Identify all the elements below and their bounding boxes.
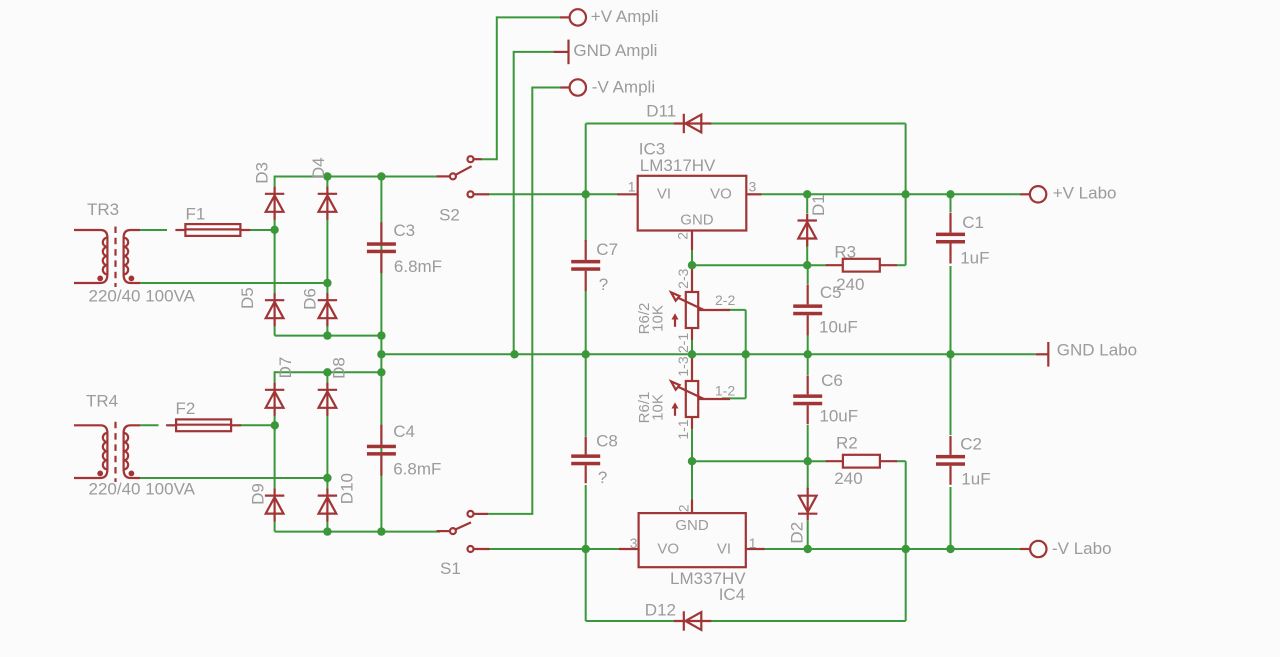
svg-text:10uF: 10uF: [819, 406, 858, 425]
wire C2 column upper: [950, 354, 952, 435]
diode D3: [265, 187, 284, 220]
wire -V Ampli net horizontal: [532, 87, 561, 89]
wire D11 left horizontal: [586, 123, 674, 125]
svg-text:+V Ampli: +V Ampli: [591, 7, 659, 26]
wire R6/2 wiper net: [722, 309, 746, 311]
svg-text:D10: D10: [338, 473, 357, 504]
wire adj rail upper: [692, 264, 827, 266]
svg-text:?: ?: [599, 275, 608, 294]
wire GND rail: [381, 353, 1035, 355]
wire F2 junction to D9: [274, 425, 276, 491]
wire C6 column upper: [807, 354, 809, 375]
wire C6 column lower: [807, 425, 809, 461]
transformer TR3: [74, 227, 140, 288]
svg-text:10uF: 10uF: [819, 317, 858, 336]
svg-text:2: 2: [676, 504, 692, 512]
diode D11: [674, 114, 712, 133]
svg-text:C4: C4: [393, 422, 415, 441]
svg-text:220/40 100VA: 220/40 100VA: [89, 287, 196, 306]
capacitor C8: [571, 436, 600, 483]
diode D2: [798, 488, 817, 521]
potentiometer R6/2: [671, 267, 730, 340]
wire D4 to TR3 junction: [326, 208, 328, 289]
wire top bridge positive rail: [275, 176, 440, 178]
wire D11 left vertical: [585, 124, 587, 196]
wire S2 to IC3 VI rail: [488, 193, 619, 195]
diode D10: [318, 489, 337, 522]
svg-text:VO: VO: [710, 186, 732, 203]
capacitor C6: [793, 375, 822, 424]
wire -V Ampli to S1 throw: [487, 513, 533, 515]
capacitor C7: [571, 240, 600, 291]
junction GND rail GND Ampli: [510, 350, 518, 358]
junction bottom rail C3: [377, 331, 385, 339]
junction rail4 C4: [377, 527, 385, 535]
diode D8: [318, 383, 337, 416]
wire IC4 right rail: [765, 548, 1022, 550]
svg-text:TR4: TR4: [86, 391, 118, 410]
diode D6: [318, 293, 337, 326]
junction GND rail C7C8: [582, 350, 590, 358]
wire D2 column upper: [807, 461, 809, 489]
svg-text:C3: C3: [393, 221, 415, 240]
ground symbol GND Ampli: [554, 40, 569, 65]
diode D9: [265, 489, 284, 522]
svg-text:C7: C7: [596, 240, 618, 259]
svg-text:C5: C5: [820, 283, 842, 302]
resistor R3: [826, 259, 897, 272]
svg-text:+V Labo: +V Labo: [1053, 184, 1117, 203]
switch S1 throw to regulator: [468, 546, 490, 552]
wire C4 column: [380, 372, 382, 531]
wire +V Ampli to S2 throw: [481, 158, 498, 160]
wire TR3 junction to D6: [326, 283, 328, 296]
svg-text:GND Labo: GND Labo: [1057, 341, 1137, 360]
svg-text:D4: D4: [309, 157, 328, 179]
wire C1 column lower: [950, 266, 952, 354]
svg-text:10K: 10K: [650, 394, 667, 421]
wire F2 to bridge: [241, 424, 275, 426]
svg-text:R3: R3: [834, 243, 856, 262]
svg-text:1uF: 1uF: [960, 248, 989, 267]
wire wiper column lower: [745, 354, 747, 398]
svg-text:S2: S2: [439, 205, 460, 224]
wire GND Ampli net vertical: [513, 51, 515, 354]
svg-text:VO: VO: [657, 541, 679, 558]
wire C5 column upper: [807, 265, 809, 284]
wire D7 column upper: [274, 371, 276, 386]
junction +V rail C7: [582, 190, 590, 198]
wire bottom bridge negative rail: [275, 531, 440, 533]
svg-text:F1: F1: [186, 204, 206, 223]
svg-text:D3: D3: [253, 162, 272, 184]
junction GND rail C3C4: [377, 350, 385, 358]
wire TR3 bottom to bridge: [140, 282, 327, 284]
svg-text:D5: D5: [238, 287, 257, 309]
junction TR4 D8 D10: [323, 474, 331, 482]
svg-text:D9: D9: [248, 483, 267, 505]
wire C7 upper: [585, 194, 587, 241]
capacitor C5: [793, 284, 822, 335]
wire C2 column lower: [950, 487, 952, 549]
wire D11 right vertical: [905, 124, 907, 266]
wire GND Ampli net horizontal: [514, 51, 555, 53]
svg-text:-V Labo: -V Labo: [1052, 539, 1112, 558]
svg-text:3: 3: [630, 535, 638, 551]
svg-text:C1: C1: [962, 213, 984, 232]
wire D9 to bottom rail: [274, 510, 276, 532]
svg-text:GND: GND: [675, 517, 709, 534]
junction -V rail C2: [946, 545, 954, 553]
svg-text:2-2: 2-2: [715, 292, 735, 308]
diode D4: [318, 187, 337, 220]
wire bottom bridge top rail: [275, 371, 382, 373]
wire C7 lower: [585, 290, 587, 354]
wire D8 column upper: [326, 372, 328, 386]
wire top bridge negative rail: [275, 335, 382, 337]
wire R2 to right column: [896, 460, 906, 462]
wire IC3 pin2 to adj rail: [691, 248, 693, 265]
connector -V Labo: [1020, 541, 1046, 557]
wire top bridge D3 column upper: [274, 176, 276, 191]
wire C3-C4 link column: [380, 336, 382, 373]
op-amp IC3 LM317HV body: [618, 176, 762, 250]
switch S2 lever: [456, 166, 472, 175]
svg-text:D8: D8: [330, 357, 349, 379]
svg-text:220/40 100VA: 220/40 100VA: [89, 480, 196, 499]
switch S1 lever: [456, 522, 471, 529]
wire C8 upper: [585, 354, 587, 436]
svg-text:D11: D11: [646, 102, 676, 121]
wire D7 to F2 junction: [274, 404, 276, 431]
svg-text:-V Ampli: -V Ampli: [592, 77, 655, 96]
fuse F2: [166, 419, 241, 431]
wire wiper column upper: [745, 310, 747, 354]
junction adj rail IC4 pin2: [688, 457, 696, 465]
ground symbol GND Labo: [1036, 342, 1049, 367]
wire C1 column upper: [950, 194, 952, 212]
wire TR4 to F2: [140, 424, 159, 426]
wire D5 to bottom rail: [274, 316, 276, 336]
junction GND rail wiper column: [742, 350, 750, 358]
wire D1 column upper: [806, 194, 808, 213]
transformer TR4: [74, 422, 140, 482]
wire D12 right vertical: [905, 461, 907, 621]
capacitor C3: [367, 222, 396, 273]
wire D10 to bottom rail: [326, 510, 328, 532]
svg-text:10K: 10K: [650, 305, 667, 332]
svg-text:1-3: 1-3: [675, 356, 691, 376]
diode D7: [265, 383, 284, 416]
junction -V rail D2: [804, 545, 812, 553]
svg-text:GND Ampli: GND Ampli: [573, 41, 657, 60]
wire adj rail lower: [692, 460, 827, 462]
junction GND rail C5C6: [804, 350, 812, 358]
svg-text:F2: F2: [176, 399, 196, 418]
potentiometer R6/1: [671, 356, 730, 429]
svg-text:S1: S1: [440, 559, 461, 578]
junction -V rail C8: [582, 545, 590, 553]
connector +V Ampli: [560, 9, 586, 25]
svg-text:?: ?: [598, 468, 607, 487]
wire D11 right horizontal: [710, 123, 906, 125]
svg-text:2-3: 2-3: [675, 268, 691, 288]
svg-text:R2: R2: [836, 434, 858, 453]
svg-text:6.8mF: 6.8mF: [393, 459, 441, 478]
svg-text:VI: VI: [717, 541, 731, 558]
junction -V rail D12 column: [902, 545, 910, 553]
wire R3 to right column: [896, 264, 906, 266]
wire D8 to TR4 junction: [326, 404, 328, 484]
junction GND rail C1C2: [946, 350, 954, 358]
junction F1 D3 D5: [270, 226, 278, 234]
switch S2 throw to +V Ampli: [468, 156, 482, 162]
wire -V Ampli net vertical: [531, 87, 533, 514]
junction rail3 D8: [323, 368, 331, 376]
wire D12 left vertical: [585, 549, 587, 621]
svg-text:6.8mF: 6.8mF: [394, 257, 442, 276]
wire S1 to IC4 rail: [489, 548, 620, 550]
wire C3 column: [380, 177, 382, 336]
capacitor C2: [936, 436, 965, 485]
resistor R2: [826, 455, 897, 468]
wire R6/1 top lead net: [691, 354, 693, 358]
switch S1 throw to -V Ampli: [468, 511, 489, 517]
diode D1: [798, 214, 817, 247]
wire F1 to bridge: [250, 229, 275, 231]
wire D6 to bottom rail: [326, 316, 328, 336]
wire D1 column lower: [806, 240, 808, 265]
junction +V rail D1: [803, 190, 811, 198]
switch S2 throw to regulator: [468, 191, 490, 197]
svg-text:GND: GND: [680, 211, 714, 228]
wire R6/1 wiper net: [722, 397, 746, 399]
wire D12 right horizontal: [710, 620, 906, 622]
svg-text:D2: D2: [788, 522, 807, 544]
wire D3 to F1 junction: [274, 208, 276, 236]
junction rail4 D10: [323, 527, 331, 535]
wire +V Ampli net horizontal: [497, 16, 561, 18]
svg-text:1: 1: [628, 178, 636, 194]
svg-text:1-1: 1-1: [675, 419, 691, 439]
svg-text:VI: VI: [657, 186, 671, 203]
capacitor C4: [367, 425, 396, 476]
junction adj rail D2 C6: [804, 457, 812, 465]
fuse F1: [175, 224, 250, 236]
wire +V Ampli net vertical: [496, 16, 498, 159]
junction top rail C3: [377, 172, 385, 180]
junction F2 D7 D9: [271, 421, 279, 429]
wire D2 column lower: [807, 521, 809, 549]
junction GND rail pots: [688, 350, 696, 358]
wire R6/1 bottom to adj rail: [691, 429, 693, 461]
junction top rail D4: [323, 172, 331, 180]
svg-text:LM317HV: LM317HV: [640, 156, 716, 175]
wire C5 column lower: [807, 335, 809, 354]
junction adj rail D1 C5: [803, 261, 811, 269]
svg-text:2-1: 2-1: [675, 333, 691, 353]
svg-text:D7: D7: [276, 357, 295, 379]
svg-text:1-2: 1-2: [715, 383, 735, 399]
connector +V Labo: [1020, 186, 1046, 202]
svg-text:2: 2: [674, 232, 690, 240]
wire D12 left horizontal: [586, 620, 674, 622]
wire R6/2 bottom to GND rail: [691, 340, 693, 354]
diode D5: [265, 293, 284, 326]
svg-text:1: 1: [749, 535, 757, 551]
wire TR4 junction to D10: [326, 478, 328, 491]
svg-text:240: 240: [834, 469, 862, 488]
junction adj rail IC3 pin2: [688, 261, 696, 269]
svg-text:D12: D12: [645, 601, 676, 620]
wire F1 junction to D5: [274, 230, 276, 296]
junction +V rail C1: [946, 190, 954, 198]
svg-text:TR3: TR3: [87, 200, 119, 219]
switch S1 common contact: [437, 528, 456, 534]
switch S2 common contact: [437, 173, 456, 179]
capacitor C1: [936, 213, 965, 264]
op-amp IC4 LM337HV body: [619, 500, 765, 568]
wire TR3 to F1: [140, 229, 167, 231]
svg-text:D6: D6: [300, 288, 319, 310]
junction rail3 C4: [377, 368, 385, 376]
svg-text:1uF: 1uF: [961, 470, 990, 489]
junction TR3 D4 D6: [323, 279, 331, 287]
wire IC4 pin2 net: [691, 461, 693, 500]
junction bottom rail D6: [323, 331, 331, 339]
svg-text:C8: C8: [596, 432, 618, 451]
svg-text:IC4: IC4: [719, 585, 745, 604]
svg-text:C2: C2: [960, 434, 982, 453]
diode D12: [674, 611, 712, 630]
svg-text:3: 3: [749, 178, 757, 194]
wire TR4 bottom to bridge: [140, 477, 327, 479]
svg-text:C6: C6: [821, 371, 843, 390]
wire C8 lower: [585, 485, 587, 549]
junction +V rail D11 column: [901, 190, 909, 198]
svg-text:D1: D1: [809, 194, 828, 216]
connector -V Ampli: [560, 79, 586, 95]
wire D4 column upper: [326, 177, 328, 191]
wire IC3 VO rail: [761, 193, 1022, 195]
